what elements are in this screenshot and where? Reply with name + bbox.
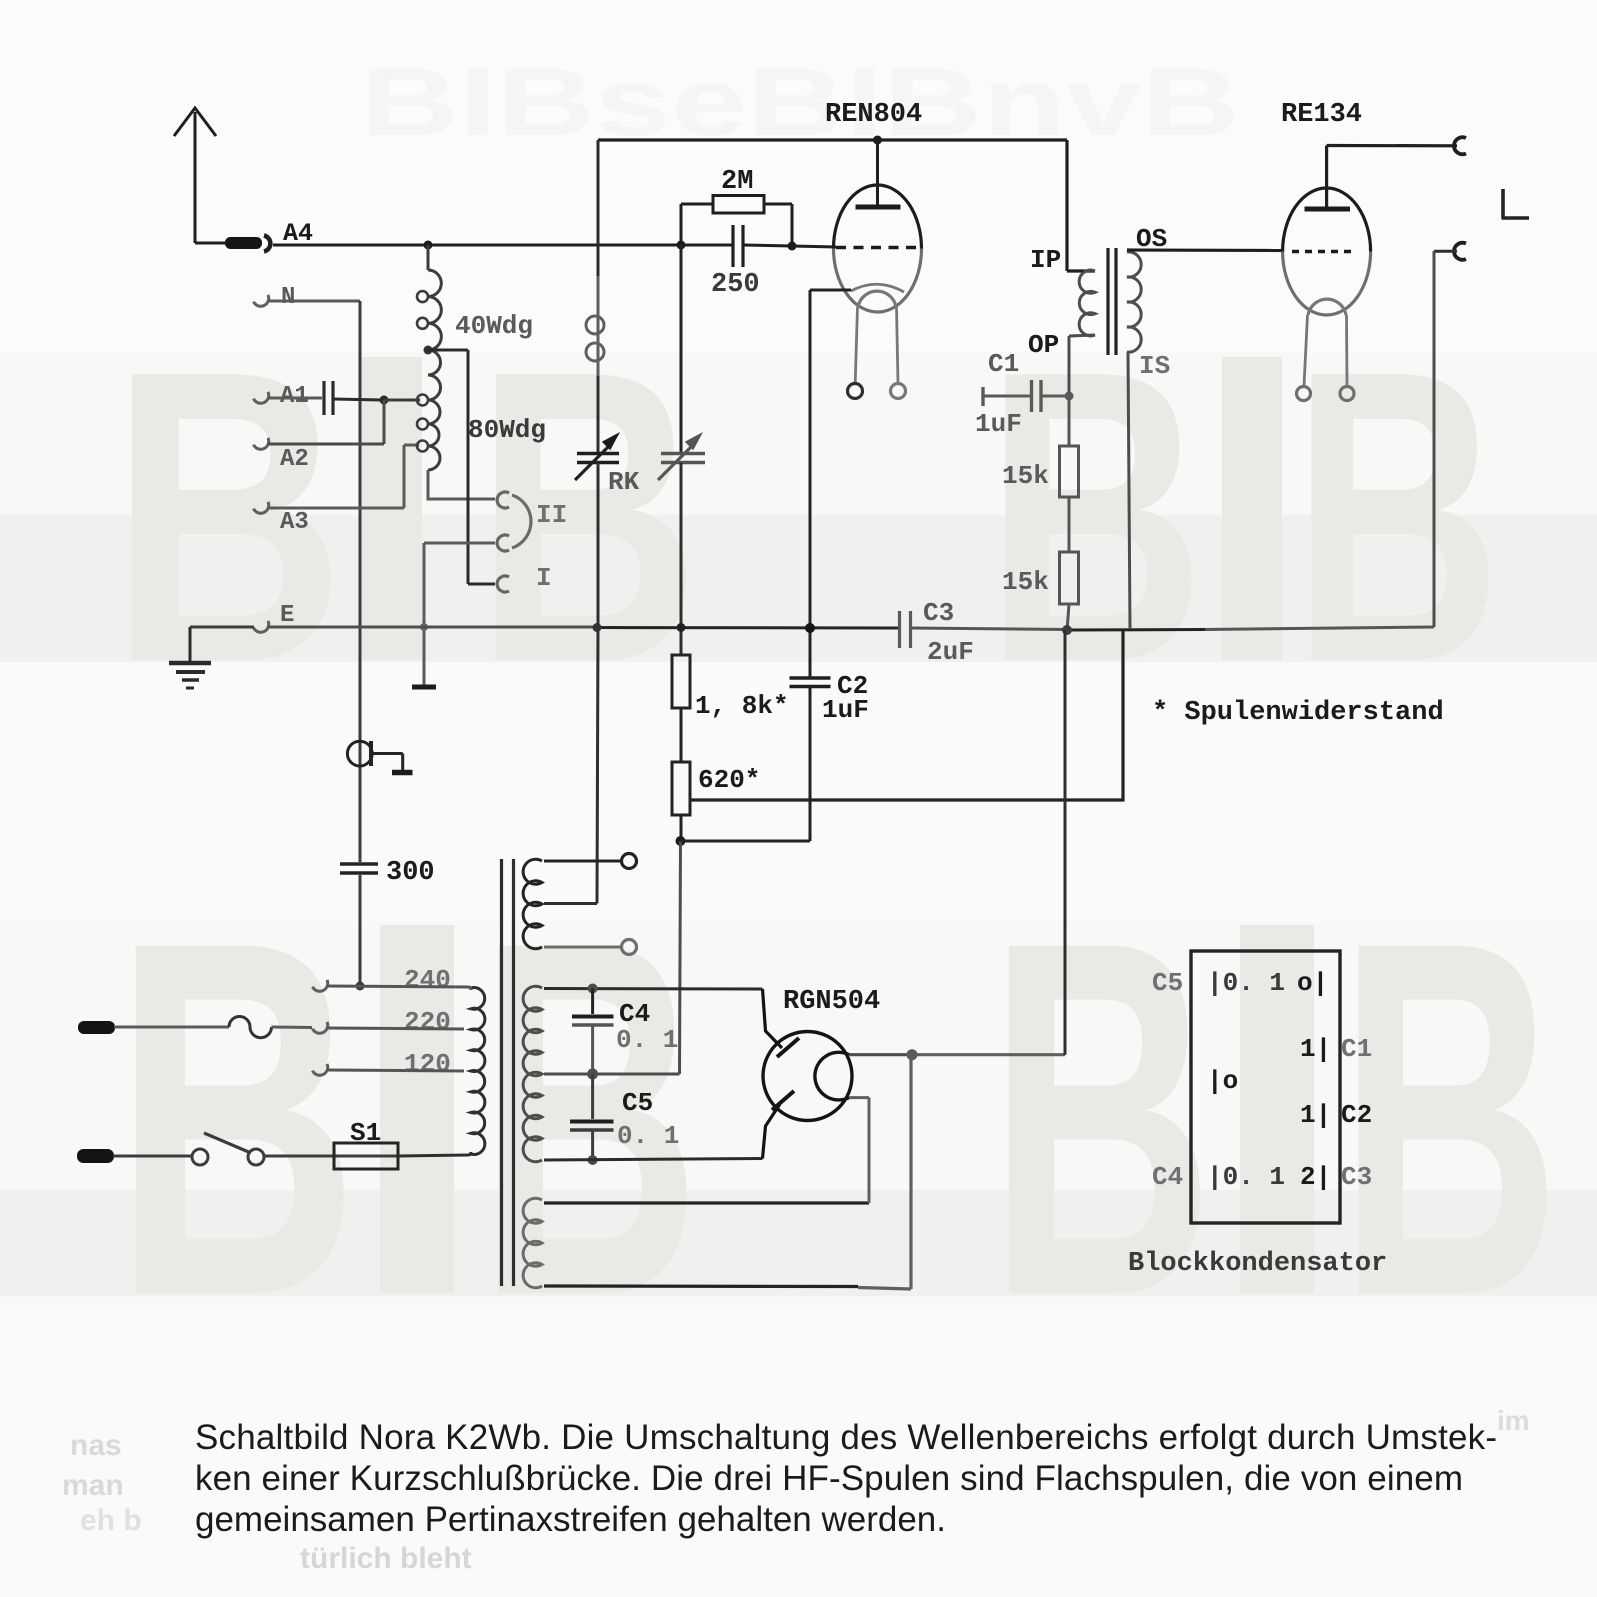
capacitor 250	[733, 225, 743, 267]
wire loudspeaker return	[1434, 251, 1457, 627]
wire HT bottom lead to rectifier anode	[544, 1159, 763, 1161]
svg-text:0. 1: 0. 1	[616, 1025, 678, 1055]
resistor 15k lower	[1060, 552, 1079, 604]
block capacitor box	[1191, 951, 1340, 1223]
grid REN804 dashed	[836, 246, 919, 249]
node cathode on E rail	[805, 623, 815, 633]
svg-text:C5: C5	[1152, 968, 1183, 998]
svg-text:C3: C3	[1341, 1162, 1372, 1192]
wire junction to coil tap	[384, 399, 420, 402]
phone jack	[347, 741, 402, 770]
cathode REN804	[851, 284, 904, 383]
wire 80Wdg bottom to contact II	[428, 470, 495, 499]
wire trimmer to E rail	[680, 463, 683, 656]
terminal A1	[253, 392, 271, 406]
contact I	[497, 576, 509, 592]
svg-text:1|: 1|	[1300, 1100, 1331, 1130]
node A1-A2 junction	[380, 396, 389, 405]
svg-text:IS: IS	[1139, 351, 1170, 381]
wire A3 lead	[268, 445, 419, 508]
resistor 15k upper	[1060, 446, 1079, 497]
svg-text:eh b: eh b	[80, 1504, 142, 1537]
wire 620 tap to IS winding	[690, 631, 1123, 800]
svg-text:B: B	[113, 837, 359, 1401]
chassis stub below II wire	[412, 685, 436, 690]
node C4 top junction	[588, 984, 598, 994]
wire tube heater bottom lead	[544, 1057, 911, 1289]
bridge plug II	[512, 495, 531, 548]
svg-text:man: man	[62, 1469, 124, 1502]
node C1 junction	[1065, 392, 1074, 401]
resistor 620 coil resistance	[672, 762, 690, 815]
node 250 right junction	[788, 242, 797, 251]
svg-text:OP: OP	[1028, 330, 1059, 360]
svg-text:15k: 15k	[1002, 461, 1049, 491]
wire contact II lower to earth rail	[424, 543, 495, 686]
svg-text:1, 8k*: 1, 8k*	[695, 691, 789, 721]
wire S1 to primary	[398, 1155, 468, 1156]
svg-text:türlich bleht: türlich bleht	[300, 1542, 472, 1575]
pin circle heater top	[622, 854, 637, 869]
node 240 junction	[356, 982, 365, 991]
capacitor C3	[900, 611, 911, 648]
wire OS to RE134 grid	[1127, 248, 1283, 252]
node HT center tap junction	[587, 1069, 598, 1080]
wire rail to IP	[1067, 140, 1095, 271]
svg-text:|0. 1: |0. 1	[1207, 968, 1285, 998]
wire A1 lead	[268, 397, 322, 400]
wire grid-leak branch upper	[680, 245, 683, 453]
svg-text:RE134: RE134	[1281, 100, 1362, 130]
node 40-80 tap junction	[424, 346, 433, 355]
capacitor 300	[340, 864, 378, 873]
core power transformer	[502, 859, 514, 1286]
svg-text:IP: IP	[1030, 245, 1061, 275]
wire A1 cap to junction	[333, 399, 384, 400]
svg-text:REN804: REN804	[825, 100, 922, 130]
wire between 15k resistors	[1068, 497, 1071, 552]
wire RE134 anode lead	[1327, 146, 1457, 210]
svg-text:gemeinsamen Pertinaxstreifen g: gemeinsamen Pertinaxstreifen gehalten we…	[195, 1500, 946, 1539]
wire C2 to bias node	[681, 687, 811, 842]
svg-text:C1: C1	[1341, 1034, 1372, 1064]
variable capacitor RK	[575, 447, 619, 480]
wire RK branch lower	[597, 463, 598, 904]
fuse S1	[334, 1143, 398, 1169]
svg-text:A3: A3	[280, 509, 309, 536]
wire mains upper	[114, 1026, 229, 1029]
variable capacitor antenna trimmer	[658, 447, 705, 480]
svg-text:C1: C1	[988, 349, 1019, 379]
svg-text:220: 220	[404, 1007, 451, 1037]
pin circle REN804 filament left	[848, 384, 863, 399]
pin circle heater bottom	[622, 940, 637, 955]
wire S1 into primary	[468, 1152, 471, 1155]
capacitor C2	[790, 678, 831, 687]
fuse bump	[229, 1017, 272, 1038]
svg-text:300: 300	[386, 858, 435, 888]
connector loudspeaker lower	[1454, 243, 1466, 260]
ground symbol	[169, 627, 211, 688]
svg-text:2uF: 2uF	[927, 637, 974, 667]
pin circle RE134 filament right	[1340, 387, 1354, 401]
tube RGN504 envelope	[763, 1032, 852, 1121]
core interstage transformer	[1108, 248, 1116, 355]
svg-text:120: 120	[404, 1049, 451, 1079]
svg-text:B: B	[1292, 285, 1502, 748]
svg-text:C3: C3	[923, 598, 954, 628]
svg-text:0. 1: 0. 1	[617, 1121, 679, 1151]
node RK on E rail	[593, 623, 602, 632]
svg-text:1uF: 1uF	[822, 695, 869, 725]
capacitor C5	[570, 1074, 614, 1160]
wire mains lower	[113, 1155, 192, 1158]
terminal A3	[253, 502, 271, 516]
svg-text:15k: 15k	[1002, 567, 1049, 597]
wire 15k to E rail	[1067, 604, 1069, 631]
wire N line	[268, 301, 360, 986]
pin circle REN804 filament right	[891, 384, 906, 399]
terminal N	[253, 295, 271, 309]
svg-text:RK: RK	[608, 467, 640, 497]
anode plate RE134	[1305, 207, 1351, 212]
svg-text:Schaltbild Nora K2Wb. Die Umsc: Schaltbild Nora K2Wb. Die Umschaltung de…	[195, 1418, 1497, 1457]
capacitor C4	[572, 989, 614, 1075]
wire A2 lead	[268, 400, 384, 444]
svg-text:250: 250	[711, 270, 760, 300]
node 250 left junction	[677, 241, 686, 250]
inductor rectifier heater winding	[523, 859, 621, 948]
wire switch to fuse S1	[264, 1155, 334, 1158]
terminal 120	[312, 1064, 330, 1078]
chassis stub jack	[392, 770, 413, 776]
wire heater bottom lead	[544, 946, 621, 949]
cathode RE134	[1304, 299, 1347, 386]
grid RE134 dashed	[1292, 250, 1356, 253]
wire tap to contact I	[428, 350, 495, 584]
connector loudspeaker upper	[1454, 137, 1466, 154]
wire rectifier cathode output	[849, 630, 1065, 1055]
inductor 40Wdg antenna coil	[417, 245, 441, 350]
svg-text:620*: 620*	[698, 765, 760, 795]
wire fuse to 220	[272, 1026, 313, 1030]
wire IS down	[1128, 352, 1130, 629]
svg-text:E: E	[280, 602, 294, 629]
inductor mains primary	[471, 988, 485, 1155]
wire 120 lead	[327, 1070, 464, 1071]
node rectifier output junction	[907, 1049, 918, 1060]
node anode top rail junction	[873, 136, 882, 145]
antenna	[174, 108, 226, 243]
wire 240 into primary	[468, 987, 471, 990]
wire 1.8k to 620	[680, 708, 683, 762]
wire bias node to HT center tap	[593, 841, 681, 1074]
node II wire on E rail	[420, 623, 428, 631]
filament RGN504	[815, 1052, 849, 1100]
switch mains	[192, 1133, 264, 1165]
inductor tube heater winding	[523, 1198, 542, 1288]
wire 220 lead	[327, 1028, 464, 1029]
contact II upper	[497, 492, 509, 508]
wire REN804 cathode down	[810, 290, 851, 677]
inductor 80Wdg antenna coil	[417, 350, 440, 470]
svg-text:C4: C4	[1152, 1162, 1183, 1192]
node A4-coil junction	[424, 241, 433, 250]
tube RE134 envelope	[1283, 188, 1371, 252]
inductor interstage primary	[1079, 270, 1095, 336]
contact II lower	[497, 535, 509, 551]
svg-text:o|: o|	[1297, 968, 1328, 998]
svg-text:B: B	[478, 835, 700, 1400]
svg-text:* Spulenwiderstand: * Spulenwiderstand	[1152, 698, 1444, 728]
anode plate REN804	[856, 205, 901, 210]
svg-text:B: B	[110, 285, 345, 749]
node bias junction	[676, 836, 686, 846]
svg-text:2M: 2M	[721, 167, 753, 197]
wire OP node to 15k	[1068, 396, 1071, 446]
wire REN804 top cap lead	[876, 140, 879, 206]
svg-text:2|: 2|	[1300, 1162, 1331, 1192]
svg-text:Blockkondensator: Blockkondensator	[1128, 1249, 1387, 1279]
terminal A4 plug	[225, 236, 270, 252]
wire rectifier filament return	[849, 1098, 869, 1203]
terminal 220	[312, 1022, 330, 1036]
terminal 240	[312, 980, 330, 994]
svg-text:C5: C5	[622, 1088, 653, 1118]
node trimmer on E rail	[677, 623, 686, 632]
resistor 1.8k coil resistance	[672, 655, 690, 708]
inductor interstage secondary	[1127, 252, 1141, 352]
svg-text:80Wdg: 80Wdg	[468, 415, 546, 445]
wire HT top lead to rectifier anode	[544, 987, 763, 991]
wire top rail	[598, 138, 1067, 141]
svg-text:|0. 1: |0. 1	[1207, 1162, 1285, 1192]
svg-text:nas: nas	[70, 1429, 122, 1462]
svg-text:|o: |o	[1207, 1066, 1238, 1096]
wire HT center tap	[544, 1073, 593, 1076]
wire tube heater top lead	[544, 1201, 869, 1204]
svg-text:im: im	[1497, 1405, 1530, 1436]
svg-text:RGN504: RGN504	[783, 987, 880, 1017]
inductor grid coupling coil	[586, 276, 604, 378]
anode RGN504 upper	[763, 989, 800, 1057]
wire RK branch upper	[597, 140, 600, 313]
anode RGN504 lower	[763, 1091, 795, 1159]
resistor 2M	[681, 196, 792, 246]
wire heater center tap	[544, 902, 597, 905]
svg-text:S1: S1	[350, 1118, 381, 1148]
tube REN804 envelope	[834, 185, 922, 249]
inductor HT secondary	[523, 986, 542, 1161]
wire A4 grid rail	[273, 245, 836, 247]
svg-text:A2: A2	[280, 446, 309, 473]
mains plug lower	[77, 1149, 114, 1163]
svg-text:B: B	[988, 837, 1214, 1401]
svg-text:40Wdg: 40Wdg	[455, 311, 533, 341]
svg-text:ken einer Kurzschlußbrücke. Di: ken einer Kurzschlußbrücke. Die drei HF-…	[195, 1459, 1463, 1498]
terminal A2	[253, 438, 271, 452]
terminal E	[253, 621, 271, 635]
label L	[1502, 189, 1530, 218]
node B+ on E rail	[1062, 625, 1072, 635]
svg-text:N: N	[281, 284, 295, 311]
wire 240 lead	[327, 986, 468, 987]
mains plug upper	[78, 1021, 115, 1034]
node HT bottom junction	[588, 1155, 598, 1165]
wire earth rail	[190, 627, 1434, 630]
capacitor C1	[983, 380, 1069, 412]
svg-text:1uF: 1uF	[975, 409, 1022, 439]
svg-text:II: II	[536, 500, 567, 530]
pin circle RE134 filament left	[1297, 387, 1311, 401]
svg-text:1|: 1|	[1300, 1034, 1331, 1064]
svg-text:240: 240	[404, 965, 451, 995]
svg-text:C2: C2	[1341, 1100, 1372, 1130]
wire OP lead	[1069, 335, 1095, 396]
wire RK branch middle	[597, 376, 600, 453]
capacitor A1 series	[324, 381, 333, 415]
wire 620 to bias node	[680, 815, 683, 841]
svg-text:I: I	[536, 563, 552, 593]
